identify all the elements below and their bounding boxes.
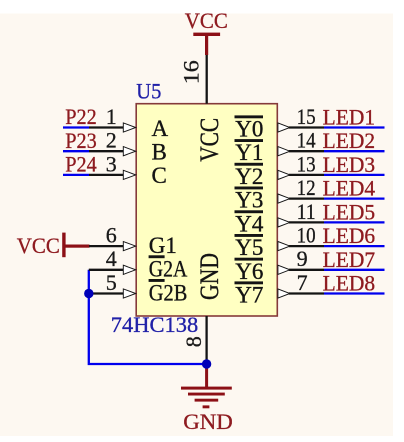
pin 13 (Y2) bbox=[278, 151, 324, 179]
svg-text:74HC138: 74HC138 bbox=[111, 312, 199, 337]
power symbol VCC (left) bbox=[17, 233, 90, 259]
wire net LED8 bbox=[324, 292, 385, 294]
pin name Y1 (overbar) bbox=[235, 139, 264, 165]
wire net (G2A/G2B to GND) bbox=[89, 270, 207, 364]
pin 12 (Y3) bbox=[278, 175, 324, 203]
wire net LED7 bbox=[324, 269, 385, 271]
power symbol VCC (top) bbox=[185, 8, 228, 55]
junction (pin 5 tap) bbox=[84, 289, 93, 298]
IC U5 74HC138 body bbox=[136, 104, 277, 316]
svg-text:2: 2 bbox=[106, 128, 117, 153]
svg-text:8: 8 bbox=[181, 336, 206, 347]
pin 2 (B) bbox=[89, 128, 136, 156]
svg-text:LED5: LED5 bbox=[323, 199, 376, 224]
svg-text:B: B bbox=[152, 140, 167, 165]
svg-text:P23: P23 bbox=[65, 128, 97, 153]
svg-text:LED6: LED6 bbox=[323, 223, 376, 248]
svg-text:7: 7 bbox=[297, 270, 308, 295]
svg-text:4: 4 bbox=[106, 246, 117, 271]
pin name Y0 (overbar) bbox=[235, 115, 264, 141]
wire net LED5 bbox=[324, 221, 385, 223]
svg-text:U5: U5 bbox=[136, 79, 161, 104]
svg-text:16: 16 bbox=[178, 60, 203, 84]
svg-text:P22: P22 bbox=[65, 104, 97, 129]
svg-text:6: 6 bbox=[106, 223, 117, 248]
pin 11 (Y4) bbox=[278, 199, 324, 227]
svg-text:Y3: Y3 bbox=[235, 188, 263, 213]
ground symbol GND bbox=[181, 366, 233, 434]
svg-text:G2A: G2A bbox=[149, 257, 188, 282]
pin 6 (G1) bbox=[89, 223, 136, 251]
pin 10 (Y5) bbox=[278, 223, 324, 251]
svg-text:Y6: Y6 bbox=[235, 259, 263, 284]
svg-text:LED4: LED4 bbox=[323, 176, 376, 201]
svg-text:15: 15 bbox=[297, 104, 316, 129]
svg-text:G1: G1 bbox=[149, 233, 177, 258]
svg-text:G2B: G2B bbox=[149, 280, 188, 305]
svg-text:A: A bbox=[152, 116, 169, 141]
svg-text:Y5: Y5 bbox=[235, 235, 263, 260]
svg-text:LED3: LED3 bbox=[323, 152, 376, 177]
pin 1 (A) bbox=[89, 104, 136, 132]
pin 16 (VCC) bbox=[178, 55, 206, 104]
pin name G2A (overbar on G) bbox=[149, 255, 188, 281]
svg-text:14: 14 bbox=[297, 128, 316, 153]
pin name Y5 (overbar) bbox=[235, 234, 264, 260]
pin 14 (Y1) bbox=[278, 128, 324, 156]
pin 7 (Y7) bbox=[278, 270, 324, 298]
svg-text:C: C bbox=[152, 163, 167, 188]
svg-text:3: 3 bbox=[106, 151, 117, 176]
pin name G2B (overbar on G) bbox=[149, 279, 188, 305]
svg-text:1: 1 bbox=[106, 104, 117, 129]
svg-text:Y1: Y1 bbox=[235, 140, 263, 165]
pin 15 (Y0) bbox=[278, 104, 324, 132]
svg-text:Y4: Y4 bbox=[235, 211, 264, 236]
svg-text:Y7: Y7 bbox=[235, 283, 263, 308]
pin 8 (GND) bbox=[181, 316, 207, 364]
svg-text:VCC: VCC bbox=[195, 118, 224, 162]
svg-text:Y2: Y2 bbox=[235, 164, 263, 189]
pin 5 (G2B) bbox=[89, 270, 136, 298]
svg-text:Y0: Y0 bbox=[235, 117, 263, 142]
pin 3 (C) bbox=[89, 151, 136, 179]
svg-text:LED1: LED1 bbox=[323, 105, 376, 130]
pin name Y2 (overbar) bbox=[235, 163, 264, 189]
svg-text:12: 12 bbox=[297, 175, 316, 200]
wire net LED1 bbox=[324, 126, 385, 128]
svg-text:VCC: VCC bbox=[185, 8, 228, 33]
svg-text:LED2: LED2 bbox=[323, 128, 376, 153]
svg-text:10: 10 bbox=[297, 223, 316, 248]
pin name Y6 (overbar) bbox=[235, 258, 264, 284]
svg-text:P24: P24 bbox=[65, 152, 97, 177]
junction (GND node) bbox=[202, 359, 211, 368]
svg-text:11: 11 bbox=[297, 199, 316, 224]
wire net P22 bbox=[63, 126, 89, 128]
svg-text:LED7: LED7 bbox=[323, 247, 376, 272]
pin 9 (Y6) bbox=[278, 246, 324, 274]
wire net P24 bbox=[63, 174, 89, 176]
pin name Y4 (overbar) bbox=[235, 210, 264, 236]
svg-text:9: 9 bbox=[297, 246, 308, 271]
svg-text:13: 13 bbox=[297, 151, 316, 176]
svg-text:VCC: VCC bbox=[17, 233, 60, 258]
wire net P23 bbox=[63, 150, 89, 152]
svg-text:5: 5 bbox=[106, 270, 117, 295]
wire net LED4 bbox=[324, 197, 385, 199]
pin name Y7 (overbar) bbox=[235, 281, 264, 307]
wire net LED3 bbox=[324, 174, 385, 176]
svg-text:GND: GND bbox=[183, 409, 233, 434]
svg-text:LED8: LED8 bbox=[323, 271, 376, 296]
wire net LED6 bbox=[324, 245, 385, 247]
pin name Y3 (overbar) bbox=[235, 187, 264, 213]
svg-text:GND: GND bbox=[195, 253, 224, 300]
pin 4 (G2A) bbox=[89, 246, 136, 274]
wire net LED2 bbox=[324, 150, 385, 152]
